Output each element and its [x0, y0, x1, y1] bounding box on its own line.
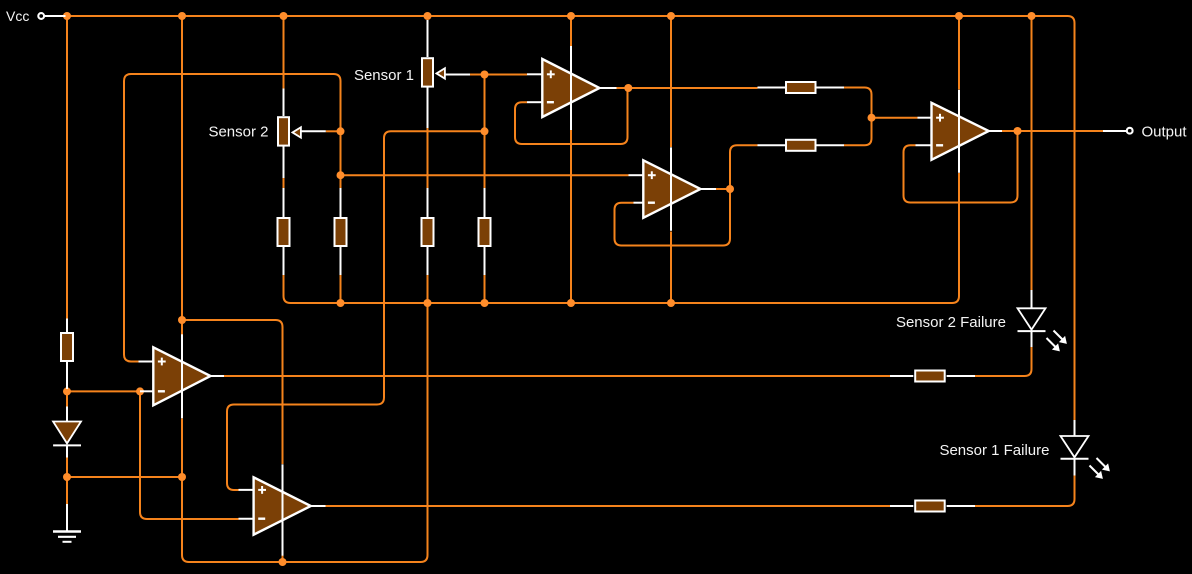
wire R1 bottom to node A — [66, 386, 68, 391]
svg-text:Sensor 1: Sensor 1 — [354, 67, 414, 84]
LED LED1 Sensor 2 Failure — [1018, 308, 1046, 329]
wire node A to U4 inverting input node — [67, 390, 140, 392]
op-amp U3 — [932, 103, 989, 160]
wire Sensor1 wiper node to U1 non-inverting input — [485, 74, 528, 76]
pin R8 left — [890, 375, 913, 377]
wire R4 bottom to mid rail — [427, 275, 429, 303]
pin U2 inverting input — [634, 202, 645, 204]
wire U2 output to node — [716, 188, 730, 190]
pin Sensor2 top lead — [283, 89, 285, 117]
wire U5 output to R9 (Sensor 1 Failure line) — [326, 505, 891, 507]
wire Output terminal lead — [1103, 130, 1127, 132]
wire rail branch to U2 power pin top — [670, 16, 672, 147]
junction node (484.5,131) — [481, 127, 489, 135]
pin R2 top — [283, 188, 285, 219]
wire mid rail y=303 over to U3 power pin bottom — [291, 173, 960, 303]
resistor R1 — [61, 333, 73, 361]
wire rail branch to U1 power pin top — [570, 16, 572, 46]
pin U1 inverting input — [527, 101, 543, 103]
pin R3 bottom — [340, 246, 342, 276]
wire R5 bottom to mid rail — [484, 275, 486, 303]
diode D1 — [53, 422, 81, 444]
svg-text:Output: Output — [1142, 123, 1188, 140]
wire from node (140,391) down and right to U5 inverting input — [140, 391, 239, 519]
pin U3 output — [988, 130, 1002, 132]
pin LED2 top — [1074, 420, 1076, 436]
junction Vcc rail / U2 power — [667, 12, 675, 20]
wire Sensor2 wiper lead to node — [326, 130, 342, 132]
pin U1 non-inverting input — [527, 73, 543, 75]
wire U2 feedback loop output to inverting input — [615, 189, 731, 246]
wire rail branch x=182 down through U4 power pin — [181, 16, 183, 335]
op-amp U1 — [542, 59, 599, 117]
wire LED1 bottom to R8 — [975, 347, 1032, 376]
wire R7 right up to node (871.5,118) — [844, 118, 872, 145]
wire Sensor1 bottom lead down to R4 — [427, 128, 429, 188]
wire R3 bottom to mid rail — [340, 275, 342, 303]
wire U2 power pin bottom to mid rail — [670, 232, 672, 304]
LED2 light arrows — [1097, 458, 1108, 469]
pin U5 inverting input — [239, 518, 255, 520]
pin U5 non-inverting input — [239, 489, 255, 491]
svg-text:Sensor 1 Failure: Sensor 1 Failure — [939, 442, 1049, 459]
op-amp U4 — [153, 347, 210, 405]
wire Sensor1 wiper node down to R5 — [484, 75, 486, 189]
pin R9 left — [890, 505, 913, 507]
LED1 light arrows — [1054, 331, 1065, 342]
pin U2 output — [700, 188, 717, 190]
junction Vcc rail / x182 branch — [178, 12, 186, 20]
pin Sensor1 top lead — [427, 20, 429, 57]
pin R8 right — [947, 375, 975, 377]
pin R7 right — [817, 144, 845, 146]
wire U1 output to R6 — [617, 87, 758, 89]
potentiometer Sensor 1 — [422, 58, 433, 86]
svg-text:Vcc: Vcc — [6, 8, 29, 24]
junction U1 output node — [624, 84, 632, 92]
wire diode D1 to node B — [66, 446, 68, 477]
svg-text:Sensor 2: Sensor 2 — [208, 123, 268, 140]
pin Sensor1 bottom lead — [427, 88, 429, 129]
op-amp U2 — [643, 160, 700, 218]
junction U2 output node — [726, 185, 734, 193]
pin R5 bottom — [484, 246, 486, 276]
resistor R6 — [786, 82, 816, 93]
potentiometer Sensor 2 — [278, 117, 289, 145]
junction node C — [178, 473, 186, 481]
pin U1 output — [599, 87, 617, 89]
pin Sensor2 wiper lead — [301, 130, 326, 132]
terminal Vcc — [38, 13, 44, 19]
wire Vcc terminal lead — [45, 15, 66, 17]
junction mid rail / U2 power — [667, 299, 675, 307]
wire Sensor2 bottom to R2 — [283, 178, 285, 188]
junction node B — [63, 473, 71, 481]
wire R2 bottom to mid rail y=303 — [284, 275, 291, 303]
wire branch from (182,320) to U5 power pin top — [182, 320, 283, 464]
op-amp U5 — [254, 477, 311, 534]
resistor R3 — [335, 218, 347, 246]
pin R1 bottom — [66, 362, 68, 389]
wire Vcc rail branch down at x=67 to R1 — [66, 16, 68, 319]
junction Vcc rail / x67 branch — [63, 12, 71, 20]
wire R9 right up to LED2 bottom — [975, 476, 1075, 507]
wire Sensor1 wiper lead to node — [470, 74, 485, 76]
wire U5 power pin bottom to bottom rail — [282, 553, 284, 562]
pin U4 inverting input — [140, 390, 154, 392]
wire Sensor2 wiper node down to R3 — [340, 131, 342, 188]
pin LED1 bottom — [1031, 331, 1033, 347]
wire U2 output node up to R7 — [730, 145, 758, 189]
pin D1 top — [66, 407, 68, 422]
wire node (340.5,175) to U2 non-inverting input — [341, 174, 629, 176]
wire rail branch to U3 power pin top — [958, 16, 960, 90]
resistor R9 — [915, 501, 945, 512]
pin R6 left — [758, 87, 786, 89]
junction R6/R7 to U3 input node — [868, 114, 876, 122]
pin R7 left — [758, 144, 786, 146]
junction mid rail / R5 — [481, 299, 489, 307]
terminal Output — [1127, 128, 1133, 134]
wire node B to node C at x=182 — [67, 476, 182, 478]
pin R5 top — [484, 188, 486, 219]
pin R6 right — [817, 87, 845, 89]
pin R1 top — [66, 319, 68, 334]
wire node A down to diode D1 — [66, 391, 68, 406]
pin Sensor2 bottom lead — [283, 147, 285, 179]
wire R6 right to node (871.5,118) — [844, 88, 872, 119]
junction Vcc rail / LED1 branch — [1028, 12, 1036, 20]
pin U2 non-inverting input — [629, 174, 645, 176]
pin LED1 top — [1031, 290, 1033, 308]
wire rail branch x=283.5 down to Sensor2 — [283, 16, 285, 89]
junction U4 inverting input node — [136, 387, 144, 395]
junction Vcc rail / Sensor1 branch — [424, 12, 432, 20]
junction U3 output node — [1014, 127, 1022, 135]
wire U1 power pin bottom to mid rail — [570, 130, 572, 303]
junction x182 rail / U5 power branch — [178, 316, 186, 324]
junction mid rail / R4 / bottom loop — [424, 299, 432, 307]
wire rail branch x=1031.5 down to LED1 — [1031, 16, 1033, 290]
wire node C down, along bottom, up to node (427.5,303) — [182, 303, 428, 562]
wire Vcc top rail and right rail down to LED2 — [67, 16, 1075, 420]
junction Vcc rail / Sensor2 branch — [280, 12, 288, 20]
junction node A — [63, 387, 71, 395]
pin R4 bottom — [427, 246, 429, 276]
wire Sensor2 wiper node up over to U4 non-inverting input — [124, 74, 341, 362]
junction Sensor1 wiper node — [481, 71, 489, 79]
pin D1 bottom — [66, 446, 68, 458]
wire U1 feedback loop output to inverting input — [515, 88, 628, 144]
wire R8 to U4 output (Sensor 2 Failure line) — [224, 375, 890, 377]
junction Vcc rail / U3 power — [955, 12, 963, 20]
wire U3 output to Output terminal — [1002, 130, 1103, 132]
resistor R5 — [479, 218, 491, 246]
svg-text:Sensor 2 Failure: Sensor 2 Failure — [896, 314, 1006, 331]
resistor R2 — [278, 218, 290, 246]
pin U3 non-inverting input — [918, 117, 933, 119]
junction bottom rail / U5 power — [279, 558, 287, 566]
pin U4 non-inverting input — [139, 361, 155, 363]
resistor R8 — [915, 371, 945, 382]
junction node (340.5,175) — [337, 171, 345, 179]
wire U3 feedback loop output to inverting input — [904, 131, 1018, 203]
pin LED2 bottom — [1074, 459, 1076, 476]
pin U3 inverting input — [916, 144, 933, 146]
wire U4 power pin lower segment to node C — [181, 419, 183, 478]
junction mid rail / R3 — [337, 299, 345, 307]
wire node B down toward ground — [66, 477, 68, 504]
junction Vcc rail / U1 power — [567, 12, 575, 20]
pin U4 output — [210, 375, 225, 377]
junction mid rail / U1 power — [567, 299, 575, 307]
pin R3 top — [340, 188, 342, 219]
pin R9 right — [947, 505, 975, 507]
resistor R4 — [422, 218, 434, 246]
LED LED2 Sensor 1 Failure — [1061, 436, 1089, 457]
wire node (484.5,131) left and down to U5 non-inverting input — [227, 131, 485, 490]
ground symbol — [66, 504, 68, 531]
pin R4 top — [427, 188, 429, 219]
pin U5 output — [311, 505, 326, 507]
junction Sensor2 wiper node — [337, 127, 345, 135]
pin Sensor1 wiper lead — [446, 74, 471, 76]
pin R2 bottom — [283, 246, 285, 276]
resistor R7 — [786, 140, 816, 151]
wire node (871.5,118) to U3 non-inverting input — [872, 117, 918, 119]
